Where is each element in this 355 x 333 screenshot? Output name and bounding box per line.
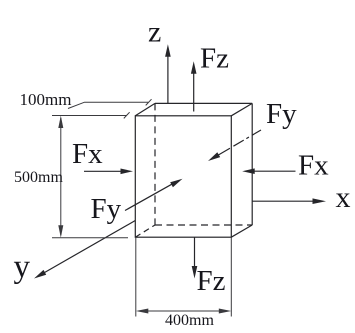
force Fx left arrow <box>84 169 133 175</box>
z axis <box>165 44 171 103</box>
box hidden bottom-left depth edge <box>135 225 155 237</box>
svg-text:Fx: Fx <box>298 150 329 182</box>
dimension 100mm leader lines <box>52 99 152 118</box>
box top-right depth edge <box>231 103 252 115</box>
svg-text:Fx: Fx <box>72 138 103 170</box>
svg-text:x: x <box>336 181 351 214</box>
force Fx right arrow <box>242 168 295 174</box>
svg-text:Fy: Fy <box>91 193 122 225</box>
svg-text:Fz: Fz <box>197 265 226 297</box>
svg-text:500mm: 500mm <box>14 169 63 186</box>
box back top edge <box>155 102 252 104</box>
box hidden back-left vertical edge <box>154 103 156 225</box>
svg-text:Fz: Fz <box>200 43 229 75</box>
force Fz bottom arrow <box>192 237 198 278</box>
box bottom-right depth edge <box>231 225 252 237</box>
box top-left depth edge <box>135 103 155 115</box>
svg-text:Fy: Fy <box>266 98 297 130</box>
force Fz top arrow <box>191 61 197 111</box>
svg-text:400mm: 400mm <box>165 312 214 329</box>
box hidden back bottom edge <box>155 224 252 226</box>
svg-text:100mm: 100mm <box>20 90 72 109</box>
force Fy bottom arrow <box>125 179 183 211</box>
box back-right vertical edge <box>251 103 253 225</box>
x axis <box>252 198 326 204</box>
svg-text:y: y <box>14 249 31 285</box>
dimension 400mm lines <box>136 237 232 316</box>
force Fy top dash-dot arrow <box>208 130 261 161</box>
y axis <box>34 221 135 279</box>
svg-text:z: z <box>148 16 161 49</box>
dimension 500mm line <box>52 116 128 238</box>
box front face <box>135 116 231 237</box>
